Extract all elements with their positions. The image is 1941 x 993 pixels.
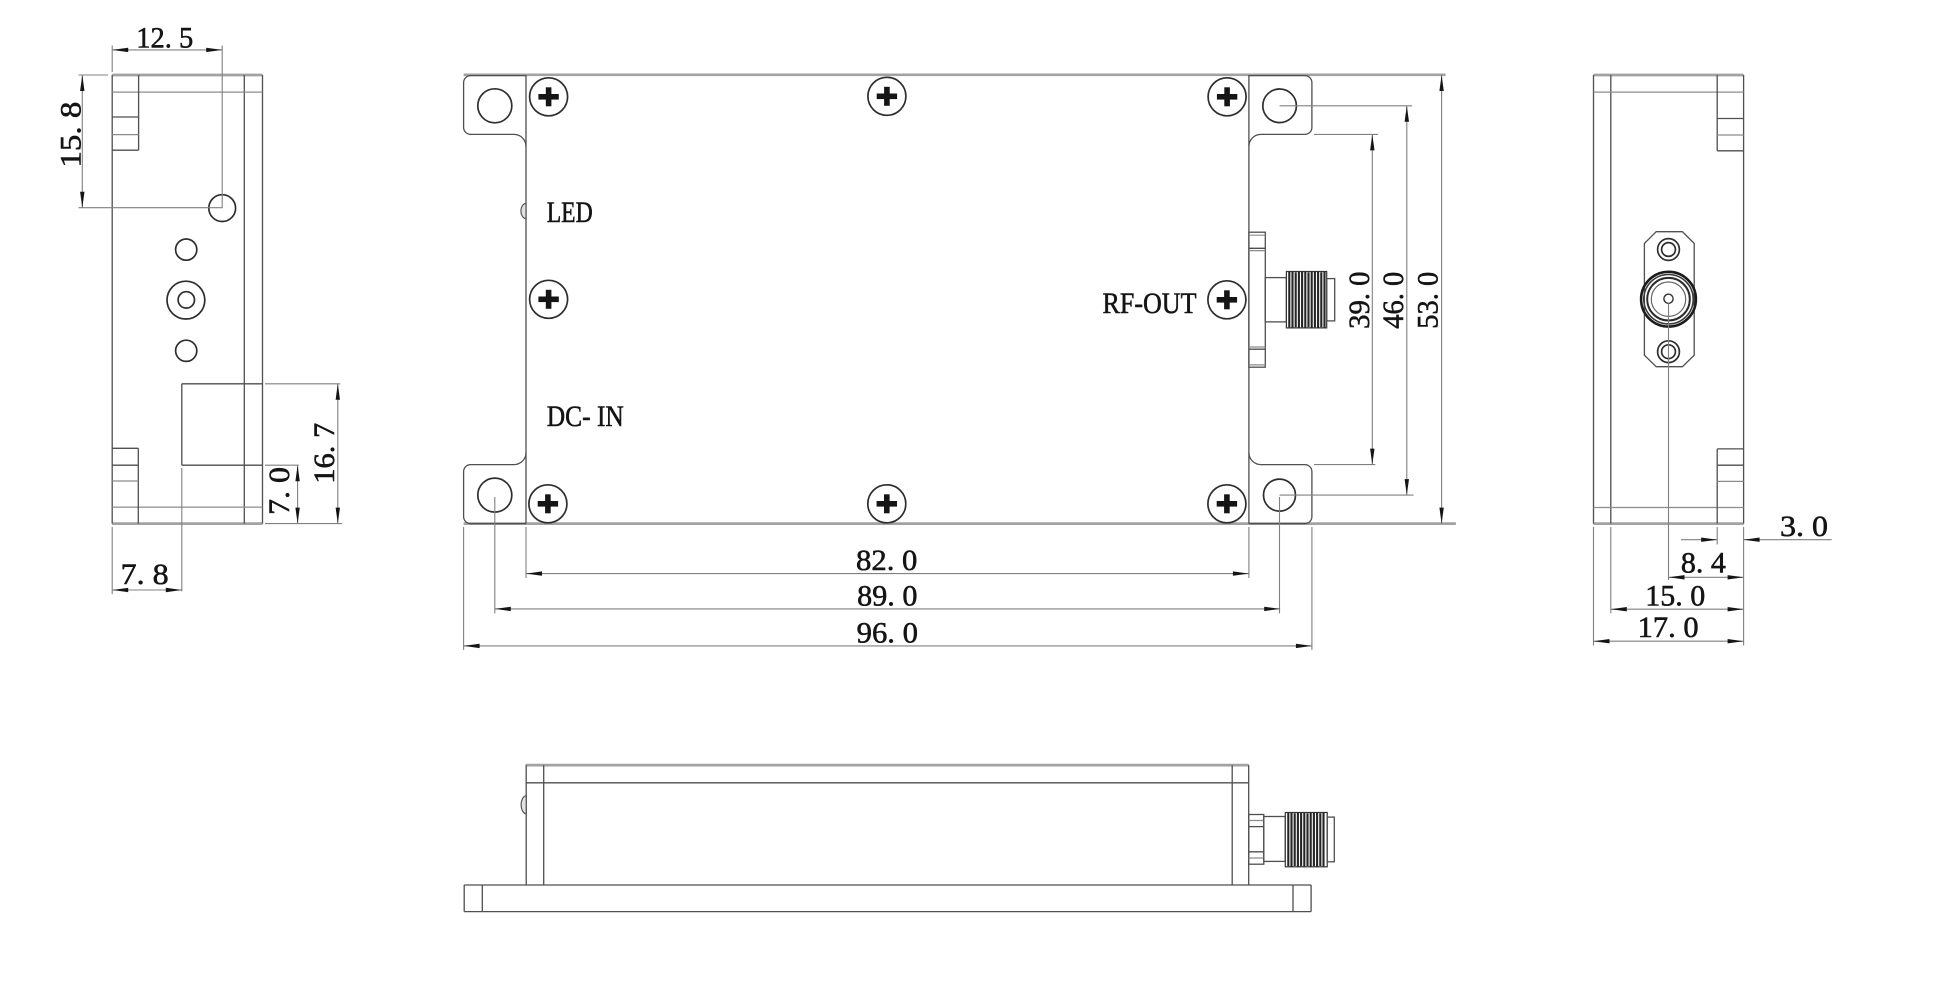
screw mid-right: [1208, 281, 1246, 319]
svg-text:LED: LED: [547, 196, 593, 229]
dimension 82.0: [526, 527, 1249, 578]
SMA center pin: [1664, 294, 1673, 303]
small hole circle lower: [176, 340, 197, 361]
svg-text:15. 0: 15. 0: [1645, 580, 1705, 613]
svg-text:7. 8: 7. 8: [121, 558, 169, 591]
right view bottom step block: [1717, 449, 1743, 524]
screw bottom-middle: [868, 485, 906, 523]
svg-text:RF-OUT: RF-OUT: [1103, 287, 1197, 320]
bottom view body top edge: [526, 764, 1249, 767]
LEFT SIDE VIEW: [54, 22, 342, 595]
left view inner horizontal lines: [112, 92, 262, 507]
left view outline: [112, 75, 262, 524]
dimension 96.0: [464, 527, 1312, 650]
left view inner vertical line: [243, 75, 245, 524]
dimension 16.7: [265, 384, 342, 524]
mounting ear bottom-right: [1249, 453, 1312, 524]
bottom view body bottom / base top line: [464, 884, 1311, 886]
dimension 12.5: [112, 46, 222, 209]
SMA center line: [1668, 303, 1670, 580]
LED hole bump on left edge: [521, 203, 526, 219]
dimension 7.8: [112, 468, 182, 594]
right view inner horizontal lines: [1594, 92, 1744, 507]
base flange outline: [464, 885, 1311, 912]
ear hole bottom-right: [1264, 479, 1296, 511]
MAIN TOP VIEW: [464, 75, 1456, 650]
SMA flange bottom mounting hole: [1658, 341, 1680, 363]
hole top circle: [209, 195, 236, 222]
dimension 15.8: [79, 75, 223, 208]
screw bottom-right: [1208, 485, 1246, 523]
dimension 39.0: [1314, 134, 1378, 464]
right view outline: [1594, 75, 1744, 524]
svg-text:DC- IN: DC- IN: [547, 400, 624, 433]
SMA connector flange (top view): [1249, 232, 1265, 367]
screw top-right: [1208, 78, 1246, 116]
left view connector recess rectangle: [182, 384, 263, 465]
base flange inner verticals: [482, 885, 1293, 912]
dimension 46.0: [1280, 106, 1414, 495]
SMA coax rings front view: [1641, 272, 1696, 327]
body side edges: [526, 75, 1249, 524]
svg-text:39. 0: 39. 0: [1343, 272, 1376, 329]
SMA end cap side view: [1327, 817, 1334, 862]
BOTTOM FRONT VIEW: [464, 765, 1334, 912]
body top and bottom edges with extensions: [464, 75, 1456, 524]
right view inner vertical line: [1610, 75, 1612, 524]
dimension 89.0: [495, 497, 1280, 613]
dimension 15.0: [1611, 527, 1744, 613]
ear hole top-right: [1263, 89, 1297, 123]
svg-text:46. 0: 46. 0: [1377, 272, 1410, 329]
bottom view inner top line: [526, 782, 1248, 784]
svg-text:53. 0: 53. 0: [1412, 272, 1445, 329]
SMA connector end cap (top view): [1327, 279, 1335, 321]
dimension 7.0: [265, 465, 299, 523]
LED hole bump bottom view: [521, 796, 526, 814]
screw bottom-left: [529, 485, 567, 523]
RIGHT SIDE VIEW: [1594, 75, 1832, 646]
svg-text:8. 4: 8. 4: [1681, 547, 1726, 580]
ear hole bottom-left: [478, 478, 512, 512]
SMA connector thread (top view): [1286, 272, 1326, 328]
SMA thread side view: [1285, 813, 1327, 867]
small hole circle upper: [176, 239, 197, 260]
svg-text:7. 0: 7. 0: [263, 467, 296, 515]
left view top step block: [112, 75, 138, 150]
mounting ear bottom-left: [464, 453, 526, 524]
svg-text:16. 7: 16. 7: [308, 423, 341, 484]
SMA neck side view: [1264, 817, 1286, 862]
screw mid-left: [530, 280, 568, 318]
right view top step block: [1717, 75, 1743, 151]
mounting ear top-right: [1249, 76, 1312, 147]
dimension 53.0: [1441, 75, 1443, 524]
svg-text:15. 8: 15. 8: [54, 102, 87, 168]
SMA flange plate front view: [1644, 232, 1694, 367]
mounting ear top-left: [464, 76, 526, 147]
concentric hole circles: [167, 281, 205, 319]
svg-text:12. 5: 12. 5: [136, 22, 193, 55]
SMA connector neck (top view): [1265, 278, 1286, 322]
ear hole top-left: [478, 89, 512, 123]
screw top-middle: [868, 77, 906, 115]
svg-text:89. 0: 89. 0: [857, 580, 917, 613]
svg-text:96. 0: 96. 0: [857, 617, 918, 650]
screw top-left: [530, 78, 568, 116]
svg-text:82. 0: 82. 0: [856, 544, 917, 577]
left view bottom step block: [112, 448, 138, 523]
bottom view left wall: [526, 765, 544, 885]
dimension 3.0: [1681, 527, 1832, 646]
SMA flange side view: [1249, 815, 1264, 865]
svg-text:17. 0: 17. 0: [1638, 611, 1699, 644]
svg-text:3. 0: 3. 0: [1780, 510, 1828, 543]
bottom view right wall: [1232, 765, 1249, 885]
SMA flange top mounting hole: [1658, 239, 1680, 261]
dimension 17.0: [1594, 527, 1744, 646]
dimension 8.4: [1669, 576, 1744, 578]
